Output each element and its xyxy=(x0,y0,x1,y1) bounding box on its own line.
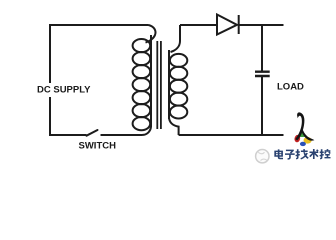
wire after diode xyxy=(239,24,284,26)
transformer T1 primary top hook xyxy=(146,25,156,43)
logo color red blob xyxy=(294,134,301,142)
diode D1 xyxy=(217,15,239,35)
transformer T1 secondary strand xyxy=(168,50,170,119)
wire bottom-secondary xyxy=(179,134,284,136)
wire bottom-primary xyxy=(101,134,143,136)
switch S1 xyxy=(87,130,98,136)
watermark text kong xyxy=(320,149,331,158)
logo lambda glyph xyxy=(295,112,314,140)
transformer T1 secondary top hook xyxy=(171,25,181,52)
svg-text:LOAD: LOAD xyxy=(277,81,304,92)
watermark text ji xyxy=(296,149,309,159)
logo color green triangle xyxy=(299,128,305,137)
watermark globe icon xyxy=(256,150,269,163)
svg-text:SWITCH: SWITCH xyxy=(79,140,117,151)
wire left-lower xyxy=(50,97,87,135)
logo color yellow blob xyxy=(304,137,312,144)
transformer T1 primary bottom hook xyxy=(142,126,151,135)
svg-text:DC SUPPLY: DC SUPPLY xyxy=(37,85,91,96)
transformer T1 primary coil xyxy=(133,39,151,130)
wire capacitor branch bottom xyxy=(261,77,263,136)
transformer core xyxy=(157,41,161,129)
capacitor C1 xyxy=(255,72,270,76)
transformer T1 secondary bottom hook xyxy=(169,117,179,135)
watermark text shu xyxy=(309,149,318,159)
transformer T1 secondary coil xyxy=(170,54,187,119)
wire top-left xyxy=(50,25,149,83)
transformer T1 primary strand xyxy=(150,35,152,127)
watermark text dian xyxy=(275,149,283,158)
watermark text zi xyxy=(285,150,295,158)
wire capacitor branch top xyxy=(261,25,263,71)
logo color blue blob xyxy=(300,142,306,146)
wire secondary top xyxy=(180,24,217,26)
